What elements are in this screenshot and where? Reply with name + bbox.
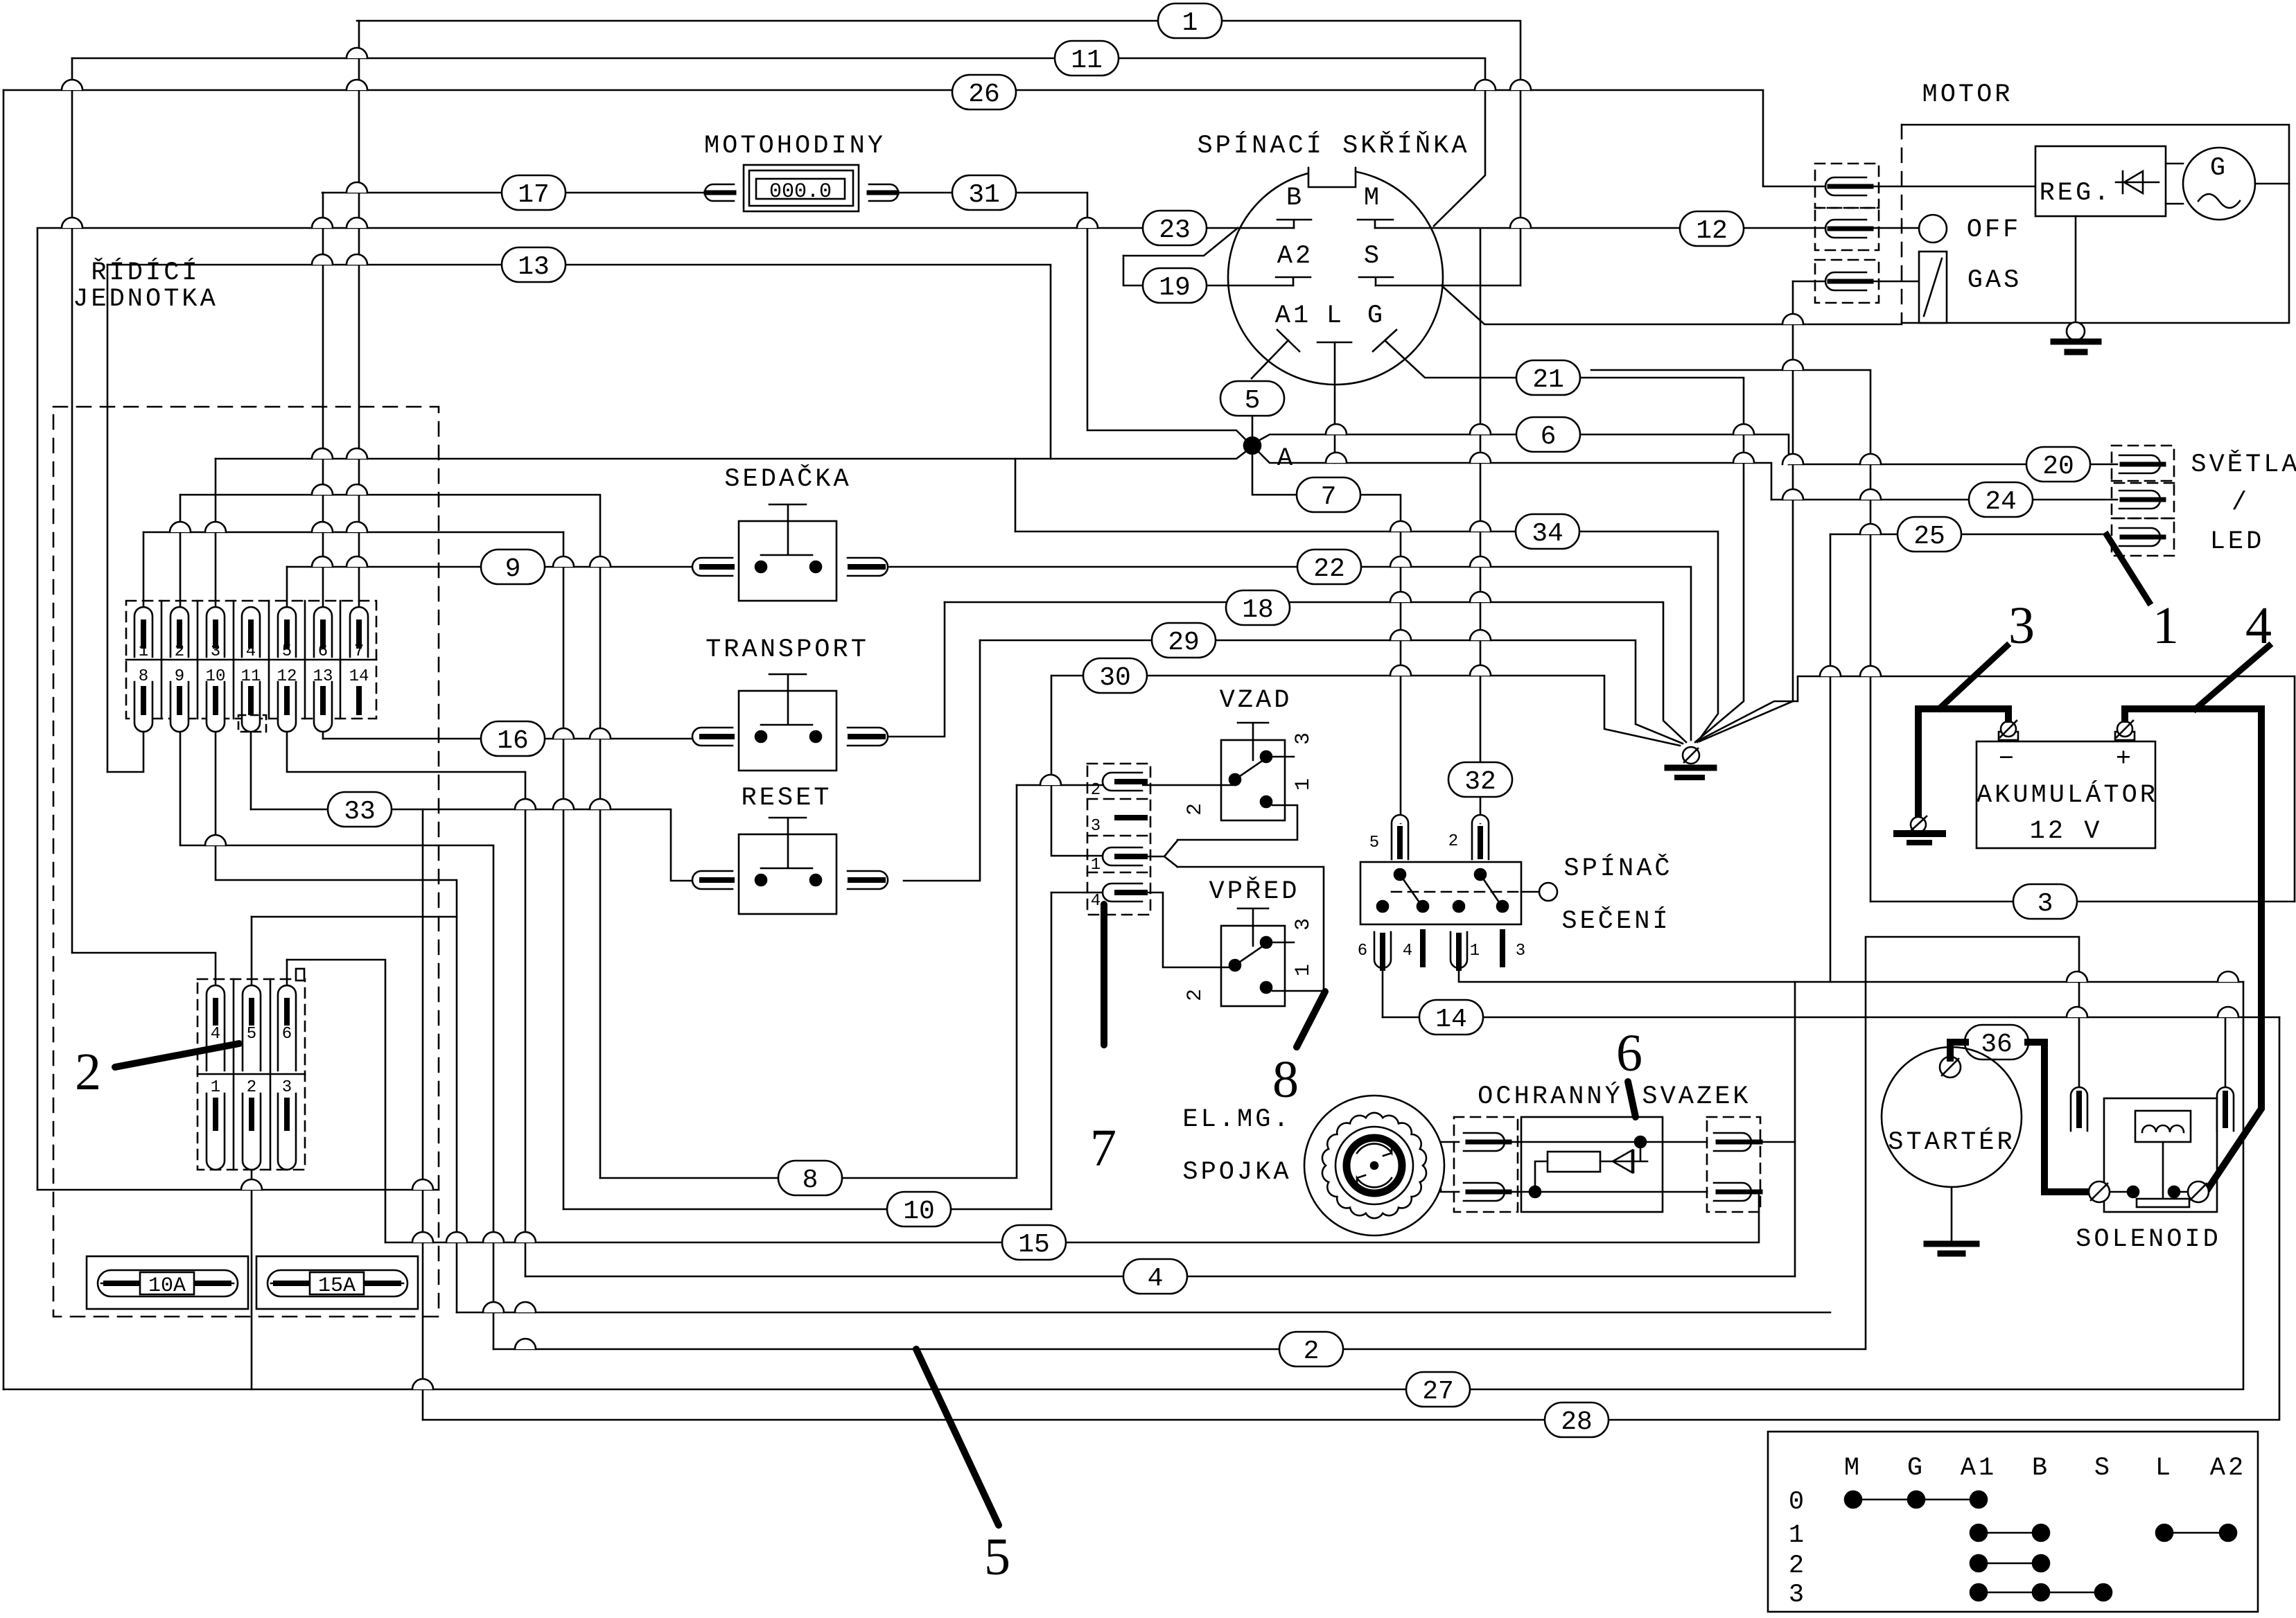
- svg-text:S: S: [2094, 1454, 2112, 1483]
- pointer 5: [916, 1349, 999, 1525]
- svg-text:7: 7: [1321, 482, 1337, 512]
- wire net RJ pin13 down: [322, 732, 324, 739]
- wire net pin11 RJ 33: [250, 732, 252, 809]
- svg-text:30: 30: [1099, 663, 1131, 693]
- svg-text:8: 8: [1272, 1050, 1299, 1109]
- svg-text:5: 5: [1245, 386, 1261, 416]
- svg-text:12: 12: [1696, 216, 1728, 246]
- GAS actuator box: [1919, 252, 1947, 323]
- svg-text:A1: A1: [1961, 1454, 1997, 1483]
- svg-text:MOTOHODINY: MOTOHODINY: [704, 132, 886, 161]
- svg-text:31: 31: [968, 180, 1000, 210]
- mow switch pin 3: [1500, 932, 1505, 965]
- REG ground: [2075, 216, 2077, 323]
- wire net pin12 RJ: [287, 732, 525, 1276]
- svg-text:5: 5: [1369, 834, 1379, 852]
- svg-text:2: 2: [1789, 1551, 1807, 1581]
- wire net 11: [72, 58, 1485, 226]
- svg-text:SVĚTLA: SVĚTLA: [2191, 450, 2296, 480]
- fuse 15A: [256, 1256, 418, 1309]
- wire hop arcs: [62, 48, 2238, 1389]
- svg-text:6: 6: [318, 642, 328, 661]
- svg-text:G: G: [2210, 154, 2228, 183]
- svg-text:MOTOR: MOTOR: [1922, 80, 2013, 109]
- ignition contact L bar: [1317, 342, 1351, 344]
- RESET terminal left: [692, 871, 733, 889]
- node label oval 29: [1152, 623, 1216, 658]
- TRANSPORT switch: [761, 674, 812, 725]
- svg-text:13: 13: [313, 667, 333, 686]
- svg-text:4: 4: [1091, 892, 1101, 911]
- wire net 21: [1385, 341, 1744, 742]
- svg-text:VZAD: VZAD: [1220, 686, 1292, 715]
- svg-text:G: G: [1907, 1454, 1925, 1483]
- node label oval 32: [1448, 762, 1512, 797]
- wire net fork to vpred: [1177, 867, 1324, 991]
- svg-text:12: 12: [277, 667, 297, 686]
- svg-text:18: 18: [1242, 595, 1274, 625]
- svg-text:+: +: [2116, 745, 2134, 774]
- svg-text:1: 1: [1182, 8, 1198, 38]
- mow switch pin 6: [1374, 932, 1391, 968]
- ignition contact A2: [1276, 277, 1311, 285]
- node label oval 30: [1083, 658, 1147, 693]
- node label oval 10: [887, 1192, 951, 1226]
- connector pin 2: [170, 607, 189, 657]
- svg-text:REG.: REG.: [2040, 179, 2112, 208]
- VPRED switch: [1238, 908, 1268, 946]
- harness right connector: [1707, 1117, 1760, 1212]
- wire net conn6 pin4 feed: [72, 953, 216, 994]
- wire net 8 line: [600, 785, 1017, 1178]
- wire net 4 line riser: [1794, 982, 1796, 1276]
- resistor: [1548, 1152, 1600, 1172]
- node label oval 19: [1143, 268, 1207, 303]
- svg-text:0: 0: [1789, 1488, 1807, 1517]
- svg-text:1: 1: [2153, 597, 2179, 655]
- direction connector pin at 1180: [1117, 815, 1145, 820]
- svg-text:−: −: [1999, 745, 2017, 774]
- starter ground: [1951, 1187, 1953, 1240]
- node label oval 36: [1965, 1025, 2028, 1059]
- control unit RIDICI JEDNOTKA dashed box: [53, 407, 439, 1317]
- solenoid box: [2104, 1098, 2217, 1212]
- node label oval 14: [1419, 1000, 1483, 1035]
- node label oval 12: [1680, 211, 1744, 246]
- svg-text:14: 14: [1435, 1005, 1467, 1035]
- truth table box: [1768, 1432, 2258, 1612]
- svg-text:4: 4: [211, 1025, 220, 1044]
- connector pin 6 top: [278, 985, 296, 1071]
- engine connector pin 3: [1815, 260, 1879, 303]
- wire net pin9 RJ: [180, 732, 493, 1349]
- svg-text:RESET: RESET: [741, 784, 832, 813]
- wire net L: [1334, 342, 1336, 463]
- svg-text:15: 15: [1018, 1230, 1050, 1260]
- hour meter body: [744, 165, 859, 211]
- wire net 5 node: [1252, 416, 1254, 438]
- svg-text:A2: A2: [1277, 242, 1313, 271]
- battery minus terminal: [1999, 732, 2018, 740]
- connector pin 9: [170, 682, 189, 732]
- svg-text:EL.MG.: EL.MG.: [1182, 1105, 1291, 1134]
- svg-text:1: 1: [1292, 778, 1315, 791]
- wire net pin10 RJ: [216, 732, 457, 1312]
- svg-text:2: 2: [1184, 803, 1207, 816]
- battery plus terminal: [2115, 732, 2135, 740]
- wire net 23 branch diag to B: [1123, 228, 1238, 256]
- node label oval 28: [1545, 1402, 1609, 1437]
- connector pin 4 top: [207, 985, 225, 1071]
- wire net pin5 conn6 line: [252, 916, 457, 918]
- wire net 24: [1771, 499, 2117, 501]
- wire net 18: [945, 602, 1686, 742]
- ignition switch SPINACI SKRINKA body: [1228, 170, 1443, 385]
- wire net RJ pin6 up: [322, 193, 324, 607]
- wire net fork to vzad: [1177, 805, 1297, 840]
- svg-text:22: 22: [1313, 554, 1345, 584]
- node label oval 1: [1158, 3, 1222, 38]
- seat SEDACKA terminal right: [848, 558, 888, 576]
- svg-text:3: 3: [2008, 597, 2035, 655]
- svg-text:9: 9: [505, 554, 521, 584]
- svg-text:VPŘED: VPŘED: [1209, 877, 1299, 906]
- svg-text:4: 4: [246, 642, 256, 661]
- svg-text:8: 8: [139, 667, 148, 686]
- wire net 7 to secheni pin5: [1360, 495, 1401, 823]
- motor enclosure: [1902, 125, 2289, 323]
- truth table row 3: [1979, 1592, 2103, 1594]
- wire net fork: [1142, 841, 1177, 867]
- node label oval 9: [481, 549, 545, 584]
- wire net S to motor: [1441, 285, 1902, 324]
- svg-text:G: G: [1367, 301, 1385, 331]
- wire net bus 1894: [457, 1312, 1830, 1314]
- connector pin 3: [207, 607, 225, 657]
- battery minus cable thick: [1918, 709, 2008, 823]
- connector pin 10: [207, 682, 225, 732]
- pointer 7: [1101, 904, 1107, 1045]
- svg-text:10: 10: [206, 667, 226, 686]
- wire net 1 / S: [357, 21, 1521, 285]
- node label oval 26: [952, 75, 1016, 109]
- svg-text:GAS: GAS: [1968, 266, 2022, 295]
- svg-text:14: 14: [349, 667, 369, 686]
- wire net pin5 conn6 drop: [251, 917, 253, 994]
- wire net 29: [980, 640, 1683, 744]
- wire net 6 from node: [1257, 434, 1789, 464]
- wire net 23: [37, 227, 1294, 229]
- node label oval 23: [1143, 211, 1207, 245]
- small connector outline: [198, 979, 305, 1170]
- svg-text:000.0: 000.0: [769, 180, 832, 204]
- seat SEDACKA switch: [761, 504, 812, 555]
- node label oval 17: [502, 175, 566, 210]
- svg-text:M: M: [1364, 184, 1382, 213]
- svg-text:6: 6: [1541, 422, 1557, 452]
- node label oval 25: [1898, 517, 1961, 552]
- pointer 6: [1628, 1082, 1636, 1117]
- wire net 13 drop to pin8: [107, 265, 109, 772]
- wire net pin1 conn6 drop: [251, 1170, 253, 1389]
- svg-text:1: 1: [1789, 1521, 1807, 1550]
- svg-text:A1: A1: [1275, 301, 1311, 331]
- ignition contact M: [1358, 220, 1393, 228]
- wire net pin3/node: [216, 450, 1248, 459]
- direction connector outline: [1087, 764, 1150, 915]
- svg-text:27: 27: [1422, 1377, 1454, 1407]
- svg-text:3: 3: [1292, 918, 1315, 931]
- svg-text:6: 6: [1358, 942, 1367, 960]
- wire net 27 line: [3, 982, 2243, 1389]
- svg-text:9: 9: [175, 667, 184, 686]
- svg-text:1: 1: [1292, 964, 1315, 976]
- solenoid right terminal: [2188, 1181, 2209, 1202]
- wire harness pin stub upper: [1760, 1141, 1795, 1143]
- node label oval 4: [1123, 1259, 1187, 1294]
- ignition contact B: [1277, 220, 1311, 228]
- svg-text:TRANSPORT: TRANSPORT: [706, 635, 869, 665]
- svg-text:23: 23: [1159, 216, 1191, 245]
- wire net 3 ground lead: [1698, 676, 2295, 902]
- wire net RJ pin8: [107, 732, 143, 772]
- wire net vpred left: [1145, 892, 1235, 967]
- svg-text:M: M: [1844, 1454, 1862, 1483]
- connector key: [296, 969, 304, 981]
- wire net RJ pin5 up: [286, 567, 288, 607]
- ignition contact A1: [1252, 330, 1299, 378]
- node label oval 24: [1969, 482, 2033, 517]
- connector pin 8: [134, 682, 152, 732]
- wire net 28 line: [423, 1017, 2279, 1420]
- truth table row 1: [1979, 1532, 2041, 1534]
- starter cable thick to 36 and solenoid: [1950, 1042, 1965, 1058]
- svg-text:32: 32: [1464, 767, 1496, 797]
- wire net 26 to REG: [3, 90, 2035, 186]
- svg-text:7: 7: [354, 642, 364, 661]
- TRANSPORT terminal left: [692, 728, 733, 746]
- connector pin 2 bottom: [243, 1093, 261, 1170]
- generator connections: [2166, 164, 2289, 204]
- wire net 20: [1789, 464, 2117, 466]
- node label oval 5: [1220, 381, 1284, 416]
- clutch EL.MG. SPOJKA: [1304, 1096, 1444, 1236]
- svg-text:A: A: [1277, 444, 1295, 473]
- connector pin 3 bottom: [278, 1093, 296, 1170]
- wire net A lower: [1257, 450, 1771, 500]
- wire net oval32 upper: [1480, 229, 1482, 762]
- wire net 31 to node A: [898, 193, 1247, 441]
- wire net 3 line: [1870, 901, 2295, 903]
- connector pin 5 top: [243, 985, 261, 1071]
- svg-text:1: 1: [139, 642, 148, 661]
- connector pin 14: [356, 689, 362, 712]
- direction connector pin at 1236: [1103, 847, 1142, 865]
- wire net pin1 drop: [563, 532, 565, 1209]
- svg-text:19: 19: [1159, 273, 1191, 303]
- svg-text:2: 2: [1304, 1337, 1320, 1366]
- connector pin 6: [314, 607, 332, 657]
- mow switch SPINAC SECENI box: [1360, 862, 1521, 924]
- battery AKUMULATOR box: [1977, 741, 2155, 848]
- solenoid coil box: [2135, 1111, 2191, 1142]
- svg-text:OCHRANNÝ: OCHRANNÝ: [1478, 1082, 1623, 1111]
- solenoid left terminal: [2089, 1181, 2110, 1202]
- svg-text:S: S: [1364, 242, 1382, 271]
- ignition contact S: [1359, 277, 1393, 285]
- starter circle: [1882, 1047, 2022, 1187]
- diode in REG: [2116, 171, 2159, 193]
- wire net 10 line: [563, 1208, 1051, 1211]
- TRANSPORT terminal right: [848, 728, 888, 746]
- svg-text:24: 24: [1985, 487, 2017, 517]
- hour meter terminal left: [705, 184, 734, 201]
- pointer 1: [2107, 535, 2149, 602]
- svg-text:4: 4: [2245, 597, 2272, 655]
- node label oval 22: [1297, 549, 1361, 584]
- svg-text:B: B: [1286, 184, 1304, 213]
- wire net pin1 RJ: [143, 531, 563, 534]
- svg-text:20: 20: [2042, 452, 2074, 482]
- wire net solenoid right pin up: [2225, 1017, 2227, 1088]
- wire net pin2 RJ down: [180, 495, 600, 1178]
- svg-text:26: 26: [968, 80, 1000, 109]
- wire net RJ pin1 up: [143, 532, 145, 607]
- wire net pin4 conn4 stub: [1051, 892, 1103, 894]
- connector pin 11: [242, 682, 260, 732]
- wire net 9/22 seat left: [287, 566, 692, 568]
- svg-text:15A: 15A: [318, 1274, 356, 1298]
- node label oval 6: [1516, 417, 1580, 452]
- svg-text:SPOJKA: SPOJKA: [1182, 1158, 1291, 1187]
- node label oval 27: [1406, 1372, 1470, 1407]
- svg-text:1: 1: [211, 1078, 220, 1097]
- svg-text:3: 3: [1292, 732, 1315, 745]
- svg-text:LED: LED: [2210, 527, 2265, 556]
- svg-text:SEDAČKA: SEDAČKA: [724, 464, 851, 494]
- svg-text:2: 2: [1184, 989, 1207, 1001]
- wire net 2 line: [493, 937, 2079, 1349]
- svg-text:29: 29: [1168, 628, 1200, 658]
- wire net 33: [251, 809, 694, 881]
- node label oval 20: [2026, 447, 2090, 482]
- mow switch pin 5: [1392, 815, 1408, 859]
- wire net 19 to A2: [1192, 285, 1293, 287]
- svg-text:11: 11: [241, 667, 261, 686]
- node label oval 7: [1297, 477, 1360, 512]
- RESET terminal right: [848, 871, 888, 889]
- VZAD switch: [1238, 723, 1268, 760]
- wire net RJ pin3 up: [215, 459, 217, 607]
- svg-text:11: 11: [1071, 46, 1103, 76]
- svg-text:13: 13: [518, 252, 550, 282]
- node label oval 33: [328, 792, 392, 827]
- wire net 4 line: [525, 1276, 1795, 1278]
- svg-text:8: 8: [803, 1166, 818, 1195]
- svg-text:3: 3: [1091, 817, 1101, 836]
- ignition contact G: [1373, 330, 1396, 351]
- direction connector pin at 1288: [1103, 883, 1142, 902]
- node label oval 16: [481, 721, 545, 756]
- clutch connector: [1454, 1117, 1518, 1212]
- svg-text:5: 5: [984, 1528, 1010, 1586]
- pointer 3: [1940, 646, 2007, 708]
- wire net 16 transport: [323, 738, 692, 740]
- connector pin 1: [134, 607, 152, 657]
- svg-text:4: 4: [1403, 942, 1412, 960]
- svg-text:17: 17: [518, 180, 550, 210]
- wire net 34 jog: [1015, 459, 1017, 531]
- connector pin 1 bottom: [207, 1093, 225, 1170]
- wire net 17/31 left: [322, 192, 705, 194]
- svg-text:16: 16: [497, 726, 529, 756]
- node label oval 18: [1226, 590, 1290, 625]
- svg-text:SPÍNAČ: SPÍNAČ: [1563, 853, 1672, 883]
- protection harness OCHRANNY SVAZEK box: [1521, 1117, 1663, 1212]
- wire net 22 cont: [883, 567, 1691, 740]
- svg-text:/: /: [2232, 489, 2250, 518]
- mow switch pin 2: [1472, 815, 1489, 859]
- lights connector pin 2: [2112, 481, 2174, 518]
- wire net 30 drop pin1: [1051, 676, 1103, 856]
- connector pin 7: [350, 607, 368, 657]
- wire net 13: [107, 265, 1051, 459]
- wire net oval32 lower: [1480, 797, 1482, 823]
- svg-text:3: 3: [211, 642, 220, 661]
- svg-text:B: B: [2032, 1454, 2050, 1483]
- wire net pin2 conn4 stub: [1017, 784, 1235, 786]
- svg-text:SOLENOID: SOLENOID: [2076, 1225, 2221, 1254]
- svg-text:A2: A2: [2210, 1454, 2246, 1483]
- connector pin 5: [278, 607, 296, 657]
- connector pin 12: [278, 682, 296, 732]
- truth table row 2: [1979, 1563, 2041, 1565]
- wire net 33 bus drop: [422, 809, 424, 1420]
- node label oval 3: [2013, 884, 2077, 919]
- svg-text:ŘÍDÍCÍ: ŘÍDÍCÍ: [91, 258, 200, 288]
- svg-text:10A: 10A: [148, 1274, 186, 1298]
- wire net bus 1717: [37, 1189, 439, 1191]
- wire net RJ pin2 up: [179, 495, 182, 607]
- wire net secheni pin1: [1459, 970, 2243, 982]
- wire net x104 drop: [71, 58, 73, 953]
- svg-text:4: 4: [1148, 1264, 1164, 1294]
- svg-text:JEDNOTKA: JEDNOTKA: [73, 285, 218, 314]
- node label oval 13: [502, 247, 566, 282]
- lights connector pin 3: [2112, 518, 2174, 556]
- wire net S wire: [1376, 285, 1521, 287]
- wire net 14 line: [1383, 1017, 2279, 1019]
- svg-text:25: 25: [1913, 522, 1945, 552]
- RESET switch: [761, 818, 812, 868]
- connector pin 13: [314, 682, 332, 732]
- node label oval 11: [1055, 41, 1119, 76]
- svg-text:2: 2: [1091, 781, 1101, 800]
- svg-text:1: 1: [1091, 856, 1101, 874]
- svg-text:34: 34: [1532, 519, 1563, 549]
- svg-text:12 V: 12 V: [2030, 817, 2103, 846]
- wire net 30: [1051, 676, 1680, 746]
- lights connector pin 1: [2112, 446, 2174, 483]
- node label oval 8: [778, 1161, 842, 1195]
- pointer 4: [2196, 646, 2269, 709]
- clutch wires to harness: [1441, 1142, 1459, 1192]
- svg-text:OFF: OFF: [1967, 216, 2022, 245]
- wire net 25: [1830, 534, 2107, 536]
- wire net 7: [1252, 453, 1297, 495]
- wire net 29 reset drop: [904, 640, 980, 881]
- wire net 3 upper: [1591, 370, 1870, 902]
